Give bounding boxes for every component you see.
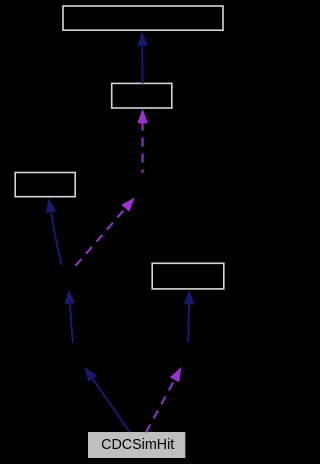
svg-text:CDCSimHit: CDCSimHit [101,437,174,453]
edge e2: solid inheritance arrow, node W to node Y [65,289,76,342]
edge c: dashed usage arrow, node Y up-right to node Z [76,197,135,265]
edge g: solid inheritance arrow, node X to right box [184,290,195,343]
edge f: dashed usage arrow, CDCSimHit to node X [146,367,181,433]
node CDCSimHit (grey filled) [88,432,185,458]
edge b: dashed usage arrow, node Z up to second box [137,109,148,173]
edge e1: solid inheritance arrow, CDCSimHit to node W [84,367,129,432]
edge d: solid inheritance arrow, node Y to left box [46,198,62,266]
node right box (empty, light border) [152,263,224,289]
node top box (empty, light border) [63,6,223,30]
node second box (empty, light border) [112,83,172,108]
node left box (empty, light border) [15,173,75,197]
edge a: solid inheritance arrow, second box to top box [137,31,148,83]
